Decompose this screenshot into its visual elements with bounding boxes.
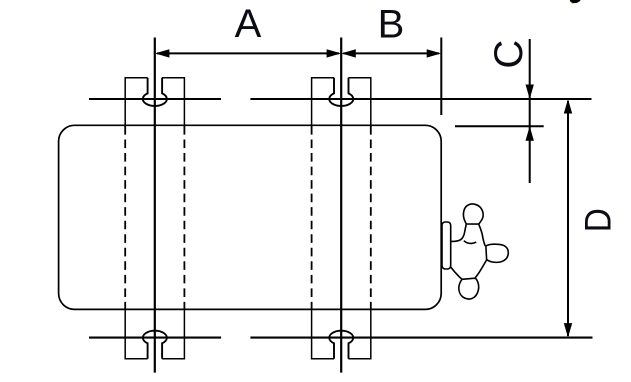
svg-text:A: A — [235, 2, 262, 46]
svg-text:C: C — [487, 40, 531, 69]
svg-text:B: B — [378, 3, 405, 47]
svg-text:D: D — [578, 208, 619, 232]
